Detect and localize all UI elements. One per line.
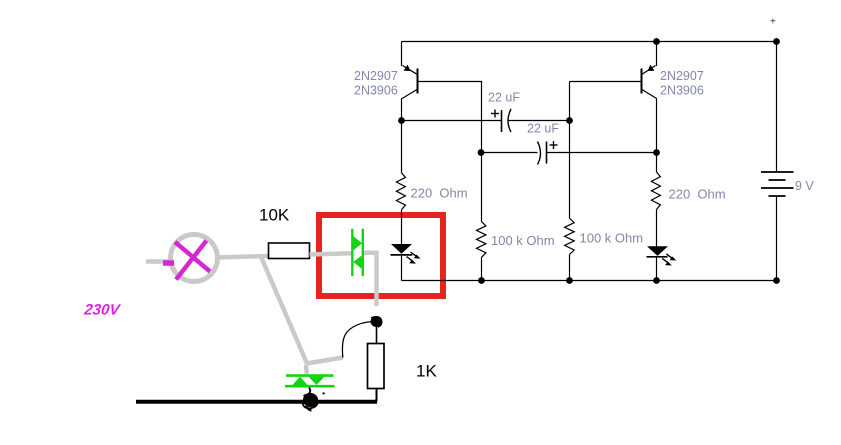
svg-text:220 Ohm: 220 Ohm — [669, 186, 726, 201]
LED D1 (left, black) — [391, 244, 421, 264]
wire: D2 cathode to bottom rail — [656, 256, 658, 281]
wire: mains left stub (gray) — [146, 259, 174, 264]
node: rail junction at R4 — [566, 277, 573, 284]
svg-text:10K: 10K — [259, 206, 290, 225]
wire: D1 cathode to bottom rail — [401, 256, 403, 281]
wire: mains bottom (thick black) — [136, 400, 377, 404]
svg-text:100 k Ohm: 100 k Ohm — [491, 233, 555, 248]
node: C2 right junction — [653, 149, 660, 156]
resistor R2 220 Ohm (right) — [651, 172, 660, 210]
svg-text:22 uF: 22 uF — [527, 122, 559, 136]
transistor Q2 2N2907/2N3906 (right PNP) — [642, 42, 657, 99]
LED D2 (right, black) — [647, 246, 677, 265]
resistor R5 10K (box) — [269, 243, 310, 259]
capacitor C2 22uF (lower row) — [481, 141, 657, 165]
resistor R1 220 Ohm — [396, 173, 405, 210]
node: C1 right junction — [566, 117, 573, 124]
svg-text:100 k Ohm: 100 k Ohm — [580, 230, 644, 245]
node: rail junction at D2 — [653, 277, 660, 284]
node: C1 left junction — [398, 117, 405, 124]
wire: bottom rail — [402, 280, 777, 282]
wire: Q2 collector down — [656, 98, 658, 172]
wire: top supply rail — [402, 41, 777, 43]
node: rail junction at R3 — [478, 277, 485, 284]
resistor R4 100 k Ohm (right) with wires — [565, 121, 575, 281]
wire: gray diagonal from 10K junction down to triac — [262, 258, 308, 364]
node: rail junction at battery — [773, 277, 780, 284]
wire: Q1 collector down — [401, 98, 403, 173]
battery B1 9V — [761, 42, 794, 281]
triac T1 (green) — [285, 376, 335, 387]
svg-text:2N2907: 2N2907 — [354, 69, 398, 83]
svg-text:220 Ohm: 220 Ohm — [411, 185, 468, 200]
wire: R1 to LED D1 — [401, 210, 403, 245]
wire: optocoupler to corner and down (gray) — [364, 253, 377, 306]
svg-text:2N2907: 2N2907 — [660, 69, 704, 83]
capacitor C1 22uF (upper row) — [402, 109, 570, 132]
red highlight box around optocoupler — [319, 215, 443, 296]
wire: 10K to optocoupler input (gray) — [310, 253, 353, 254]
resistor R3 100 k Ohm (left) with wires — [477, 153, 486, 281]
wire: lamp to 10K resistor (gray) — [216, 256, 269, 258]
svg-text:230V: 230V — [83, 302, 123, 319]
lamp LP1 (circle with magenta X) — [163, 235, 218, 282]
svg-text:2N3906: 2N3906 — [354, 83, 398, 97]
node: battery + corner on rail — [773, 38, 780, 45]
wire: gray diagonal from triac up-right — [304, 365, 309, 375]
wire: Q2 base to left — [570, 81, 642, 83]
optocoupler input LEDs (green, back-to-back) — [352, 229, 363, 276]
svg-text:1K: 1K — [416, 362, 437, 381]
wire: triac to mains wire (squiggle) — [307, 388, 310, 401]
svg-text:+: + — [770, 17, 776, 28]
svg-text:9 V: 9 V — [795, 179, 814, 193]
resistor R6 1K (box) with leads — [368, 326, 385, 402]
wire: Q2 base drop — [569, 82, 571, 121]
node: junction Q2 emitter on rail — [653, 38, 660, 45]
wire: R2 to LED D2 — [656, 210, 658, 248]
node: C2 left junction — [478, 149, 485, 156]
wire: thin gate wire from dot to triac (curved) — [342, 322, 373, 358]
svg-text:2N3906: 2N3906 — [660, 83, 704, 97]
svg-text:22 uF: 22 uF — [488, 91, 520, 105]
transistor Q1 2N2907/2N3906 (left PNP) — [402, 42, 418, 99]
node: scribbled dot on mains bottom wire — [303, 393, 325, 411]
wire: Q1 base to right then down to node B1 — [418, 82, 482, 153]
node: scribbled dot below red box — [371, 316, 383, 327]
